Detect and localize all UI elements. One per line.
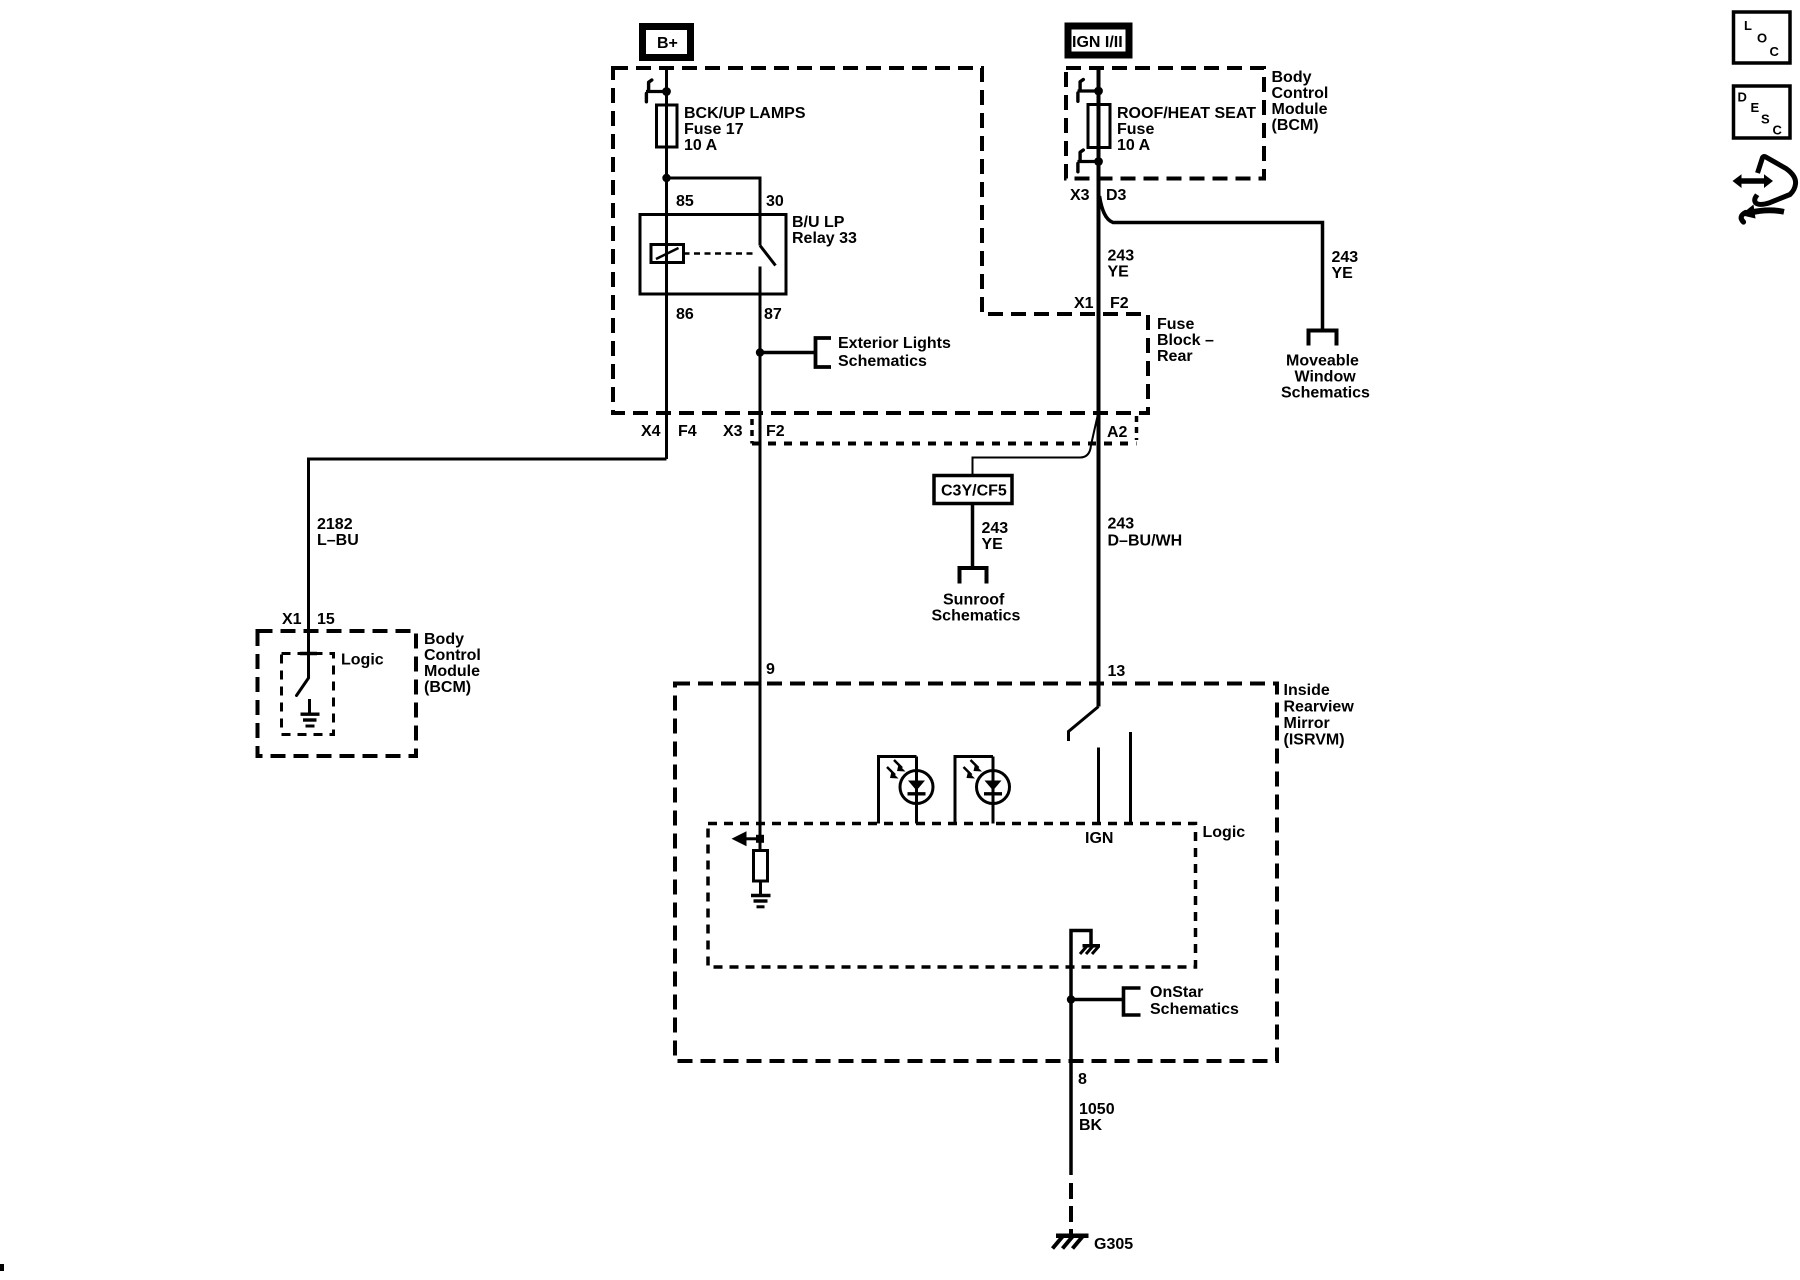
svg-text:Module: Module [424,663,480,680]
switch blade in BCM logic [297,678,309,696]
wire label 1050 BK [1079,1101,1115,1134]
svg-text:O: O [1757,31,1767,46]
svg-text:Fuse: Fuse [1157,316,1194,333]
off-page connector OnStar Schematics [1124,984,1240,1018]
relay actuator dashed link [684,252,758,255]
relay switch blade 30-87 [760,215,776,295]
wire B+ feed down through fuse 17 to relay coil and pin 86 [665,68,668,459]
svg-text:2182: 2182 [317,516,353,533]
ground symbol in ISRVM logic [751,896,771,907]
svg-text:OnStar: OnStar [1150,984,1203,1001]
svg-text:C3Y/CF5: C3Y/CF5 [941,483,1007,500]
svg-text:Sunroof: Sunroof [943,592,1005,609]
wire label 243 D-BU/WH [1108,516,1183,550]
svg-text:YE: YE [982,536,1004,553]
svg-text:10 A: 10 A [684,137,718,154]
svg-text:8: 8 [1078,1071,1087,1088]
svg-text:B/U LP: B/U LP [792,214,845,231]
svg-text:10 A: 10 A [1117,137,1151,154]
svg-text:E: E [1751,100,1760,115]
BCM module dashed box (top right) [1066,68,1328,179]
svg-text:243: 243 [1108,516,1135,533]
wire tap to exterior lights [760,351,815,355]
svg-text:G305: G305 [1094,1236,1133,1253]
svg-text:30: 30 [766,193,784,210]
photocell sensor 1 [879,757,934,824]
svg-text:F4: F4 [678,423,697,440]
svg-text:L: L [1744,18,1752,33]
svg-text:X4: X4 [641,423,661,440]
svg-text:Module: Module [1272,101,1328,118]
svg-text:13: 13 [1108,663,1126,680]
svg-text:X3: X3 [1070,187,1090,204]
B+ power symbol box [643,27,691,58]
wire branch to relay pin 30 [667,178,761,215]
svg-text:Control: Control [1272,85,1329,102]
svg-text:Mirror: Mirror [1284,715,1330,732]
svg-text:Control: Control [424,647,481,664]
svg-text:Exterior Lights: Exterior Lights [838,335,951,352]
svg-text:B+: B+ [657,35,678,52]
wire pin 87 down to ISRVM pin 9 [759,294,762,851]
svg-text:243: 243 [982,520,1009,537]
svg-text:X1: X1 [1074,295,1094,312]
node junction OnStar tap [1067,995,1075,1003]
wire branch D3 to moveable window [1100,196,1323,329]
svg-text:Block –: Block – [1157,332,1214,349]
wire C3Y/CF5 to sunroof [971,505,975,567]
svg-text:A2: A2 [1107,424,1128,441]
wire label 2182 L-BU [317,516,359,549]
svg-text:(BCM): (BCM) [424,679,471,696]
svg-text:15: 15 [317,611,335,628]
svg-text:YE: YE [1332,265,1354,282]
chassis ground in ISRVM logic [1071,931,1100,968]
ground symbol in BCM logic [301,699,320,726]
ISRVM logic dashed box [708,824,1245,968]
svg-text:Fuse 17: Fuse 17 [684,121,744,138]
node junction to exterior lights [756,348,764,356]
svg-text:9: 9 [766,661,775,678]
svg-text:Moveable: Moveable [1286,353,1359,370]
svg-text:Window: Window [1295,369,1357,386]
fuse BCK/UP LAMPS Fuse 17 10 A [657,105,806,154]
svg-text:Schematics: Schematics [932,608,1021,625]
svg-text:Body: Body [424,631,464,648]
svg-text:85: 85 [676,193,694,210]
svg-text:D: D [1738,90,1747,105]
svg-text:F2: F2 [1110,295,1129,312]
wire X4/F4 down-left 2182 L-BU to BCM [309,459,667,678]
resistor in ISRVM logic [754,851,768,895]
svg-text:X3: X3 [723,423,743,440]
svg-text:Rearview: Rearview [1284,699,1355,716]
wire IGN feed down through fuse to pin 13 switch [1097,68,1101,707]
svg-text:C: C [1770,44,1780,59]
thin branch wire A2 to C3Y/CF5 [973,414,1099,475]
fuse clip bottom (roof/heat seat fuse) [1078,150,1103,172]
svg-text:C: C [1773,123,1783,138]
svg-text:ROOF/HEAT SEAT: ROOF/HEAT SEAT [1117,105,1256,122]
svg-text:1050: 1050 [1079,1101,1115,1118]
svg-text:IGN I/II: IGN I/II [1072,34,1123,51]
svg-text:Schematics: Schematics [1150,1001,1239,1018]
fuse ROOF/HEAT SEAT Fuse 10 A [1088,105,1256,155]
fuse block rear name [1157,316,1214,365]
wire tap to OnStar [1071,998,1124,1002]
svg-text:L–BU: L–BU [317,532,359,549]
svg-text:D–BU/WH: D–BU/WH [1108,533,1183,550]
svg-text:D3: D3 [1106,187,1127,204]
stray mark bottom-left [0,1264,4,1271]
svg-text:IGN: IGN [1085,830,1113,847]
svg-text:Rear: Rear [1157,348,1193,365]
svg-text:Body: Body [1272,69,1312,86]
svg-text:Schematics: Schematics [838,353,927,370]
svg-text:Inside: Inside [1284,682,1330,699]
ground G305 [1053,1236,1134,1253]
wire label 243 YE (sunroof branch) [982,520,1009,553]
arrow tap at pin 9 node [732,831,765,846]
svg-text:Relay 33: Relay 33 [792,230,857,247]
node junction fuse17 to relay branch [662,174,670,182]
svg-text:(ISRVM): (ISRVM) [1284,732,1345,749]
fuse clip top (roof/heat seat fuse) [1078,80,1103,102]
svg-text:X1: X1 [282,611,302,628]
svg-text:Schematics: Schematics [1281,385,1370,402]
off-page connector Moveable Window Schematics [1281,331,1370,402]
wire dashed segment to G305 [1069,1183,1073,1234]
wire label 243 YE (branch) [1332,249,1359,282]
contact line IGN [1097,748,1100,824]
IGN I/II power symbol box [1068,26,1129,55]
navigation arrows icon [1733,157,1796,222]
LOC legend box [1734,12,1791,63]
svg-text:S: S [1761,112,1770,127]
contact line 2 [1129,732,1132,824]
relay coil [651,245,684,263]
svg-text:YE: YE [1108,264,1130,281]
svg-text:243: 243 [1108,248,1135,265]
pin tick at logic entry [300,652,317,656]
svg-text:Logic: Logic [341,652,384,669]
DESC legend box [1734,86,1791,138]
off-page connector Exterior Lights Schematics [816,335,952,370]
svg-text:87: 87 [764,306,782,323]
svg-text:BCK/UP LAMPS: BCK/UP LAMPS [684,105,806,122]
wire label 243 YE (main ign wire) [1108,248,1135,281]
wire ISRVM ground lead down to pin 8 [1069,967,1073,1175]
svg-text:Logic: Logic [1203,824,1246,841]
connector band X3/F2 to A2 (dotted) [752,416,1137,444]
svg-text:243: 243 [1332,249,1359,266]
inline connector C3Y/CF5 [934,476,1012,504]
off-page connector Sunroof Schematics [932,568,1021,625]
svg-text:(BCM): (BCM) [1272,117,1319,134]
switch at ISRVM pin 13 [1069,707,1099,742]
BCM module dashed box (left) [258,631,481,756]
svg-text:F2: F2 [766,423,785,440]
photocell sensor 2 [955,757,1010,824]
ISRVM dashed box [675,682,1354,1061]
svg-text:BK: BK [1079,1117,1103,1134]
fuse clip top (fuse 17) [646,80,671,102]
BCM logic dashed box [282,652,384,735]
svg-text:Fuse: Fuse [1117,121,1154,138]
relay B/U LP Relay 33 box [640,214,857,294]
svg-text:86: 86 [676,306,694,323]
fuse block / dashed enclosure (upper left, wraps to Fuse Block Rear) [613,68,1148,413]
